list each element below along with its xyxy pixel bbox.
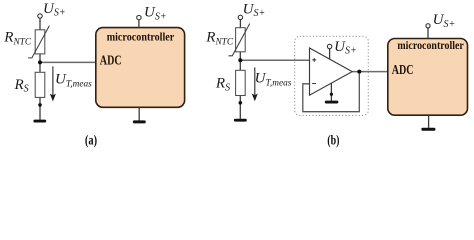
ground pin of microcontroller (b)	[428, 115, 430, 128]
svg-text:(b): (b)	[327, 133, 339, 148]
op-amp U1 triangle	[310, 48, 353, 95]
wire thermistor to node to R_S (a)	[39, 54, 41, 72]
resistor R_S (a)	[35, 72, 45, 97]
ground (a divider)	[33, 120, 46, 123]
ground (op-amp)	[325, 101, 339, 104]
output node dot (b)	[357, 70, 361, 74]
NTC diagonal arrow (b)	[229, 24, 250, 56]
svg-text:ADC: ADC	[392, 62, 414, 77]
supply pin US+ of microcontroller (a)	[138, 20, 140, 28]
dashed buffer box	[295, 36, 369, 115]
svg-text:microcontroller: microcontroller	[107, 32, 175, 44]
svg-text:ADC: ADC	[100, 53, 122, 68]
wire op-amp output to ADC (b)	[352, 71, 388, 73]
node dot (b)	[238, 58, 242, 62]
ground (b divider)	[234, 119, 247, 122]
resistor R_NTC (b)	[236, 28, 246, 52]
wire node to op-amp + input (b)	[240, 59, 309, 61]
resistor R_NTC (a)	[35, 30, 45, 54]
junction dot above ground (a)	[38, 103, 42, 107]
junction dot above ground (b)	[239, 101, 243, 105]
op-amp supply pin US+	[329, 49, 331, 60]
svg-text:(a): (a)	[85, 133, 97, 148]
wire node to ADC (a)	[40, 61, 96, 63]
voltage arrow U_T,meas (a)	[52, 66, 54, 96]
ground (a microcontroller)	[133, 120, 146, 123]
microcontroller U1 (a)	[96, 28, 185, 108]
wire R_S to ground (a)	[39, 97, 41, 120]
junction dot on ground stub	[330, 93, 333, 96]
supply pin US+ of microcontroller (b)	[427, 28, 429, 39]
op-amp + input mark	[312, 58, 316, 62]
terminal US+ (b)	[239, 20, 241, 28]
wire thermistor to node to R_S (b)	[239, 52, 241, 71]
voltage arrow U_T,meas (b)	[254, 67, 256, 96]
op-amp - input mark	[312, 83, 316, 85]
terminal US+ (a)	[39, 18, 41, 30]
node dot (a)	[38, 60, 42, 64]
microcontroller U2 (b)	[388, 39, 468, 116]
op-amp ground stub	[330, 83, 332, 101]
NTC diagonal arrow (a)	[28, 26, 49, 58]
ground (b microcontroller)	[421, 128, 435, 131]
feedback wire (- input to output)	[303, 72, 360, 112]
resistor R_S (b)	[236, 70, 246, 95]
svg-text:microcontroller: microcontroller	[397, 40, 463, 52]
wire R_S to ground (b)	[239, 96, 241, 119]
ground pin of microcontroller (a)	[138, 107, 140, 120]
